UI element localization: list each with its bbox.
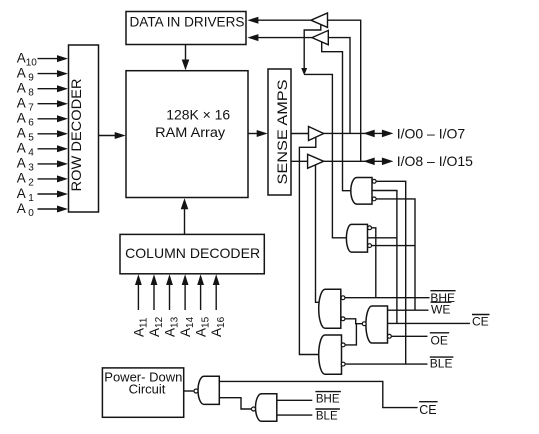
nand gate G2 (data-in enable high byte)	[346, 224, 367, 252]
nand gate G5 (read enable)	[366, 306, 388, 343]
wire G2 input3 to WE rail	[372, 245, 416, 247]
svg-text:ROW DECODER: ROW DECODER	[68, 79, 84, 192]
label SENSE AMPS	[274, 80, 290, 185]
wire COLUMN DECODER to RAM arrow	[184, 209, 186, 235]
wire T1 input from I/O8-15	[328, 20, 361, 161]
address input A10	[17, 50, 38, 68]
address input A14	[178, 316, 196, 337]
buffer T4 (I/O8-15 output)	[308, 154, 324, 168]
label BHE right	[430, 291, 455, 305]
svg-text:DATA IN DRIVERS: DATA IN DRIVERS	[130, 14, 245, 30]
svg-text:SENSE AMPS: SENSE AMPS	[274, 80, 290, 185]
and gate B (power-down byte)	[256, 394, 277, 422]
label I/O0 - I/O7	[397, 125, 466, 141]
wire A10	[38, 58, 60, 60]
wire Power-Down Circuit to gate A	[184, 390, 194, 392]
box COLUMN DECODER	[120, 234, 264, 273]
box ROW DECODER	[69, 45, 99, 212]
wire A3	[38, 163, 60, 165]
wire WE rail	[388, 309, 429, 311]
address input A9	[17, 65, 35, 83]
address input A12	[147, 316, 165, 337]
address input A0	[17, 201, 35, 219]
wire gate B input1 to BHE bottom	[277, 399, 313, 401]
nand gate G3 (output enable high byte)	[319, 289, 341, 328]
wire A14 arrow into COLUMN DECODER	[184, 285, 186, 311]
label I/O8 - I/O15	[397, 153, 473, 169]
nand gate G1 (data-in enable low byte)	[351, 178, 372, 205]
label OE right	[431, 334, 448, 348]
box RAM Array	[126, 71, 248, 198]
wire G1 input2 to CE rail	[372, 191, 397, 324]
label DATA IN DRIVERS	[130, 14, 245, 30]
label BLE right	[430, 357, 453, 371]
address input A7	[17, 96, 35, 114]
address input A4	[17, 141, 35, 159]
box DATA IN DRIVERS	[126, 12, 246, 45]
address input A2	[17, 171, 35, 189]
wire G3 input2 from G5 output	[345, 319, 362, 324]
address input A6	[17, 111, 35, 129]
wire T1 output arrow into DATA IN DRIVERS	[258, 19, 311, 21]
box SENSE AMPS	[268, 69, 291, 195]
wire A8	[38, 88, 60, 90]
wire A12 arrow into COLUMN DECODER	[153, 285, 155, 311]
wire A4	[38, 148, 60, 150]
svg-text:CE: CE	[472, 314, 489, 328]
nand gate G4 (output enable low byte)	[319, 335, 342, 374]
box Power-Down Circuit	[102, 368, 183, 417]
label 128K x 16 RAM Array	[155, 107, 230, 140]
wire A2	[38, 178, 60, 180]
wire BHE rail	[345, 297, 430, 299]
address input A3	[17, 156, 35, 174]
address input A13	[163, 316, 181, 337]
wire A16 arrow into COLUMN DECODER	[215, 285, 217, 311]
address input A11	[131, 317, 149, 337]
label ROW DECODER	[68, 79, 84, 192]
wire gate B input2 to BLE bottom	[277, 414, 313, 416]
label BLE bottom	[316, 411, 338, 423]
wire A9	[38, 73, 60, 75]
wire NAND G2 output to T1 enable	[304, 74, 347, 237]
buffer T1 (data-in upper)	[311, 13, 328, 27]
svg-text:COLUMN DECODER: COLUMN DECODER	[125, 245, 260, 261]
wire T2 input from I/O0-7	[328, 38, 350, 134]
wire T1 enable	[304, 25, 321, 70]
and gate A (power-down)	[198, 376, 219, 404]
wire G2 input1 to BHE rail	[372, 228, 376, 298]
wire T2 output arrow into DATA IN DRIVERS	[258, 37, 312, 39]
buffer T2 (data-in lower)	[312, 30, 328, 44]
address input A1	[17, 186, 35, 204]
wire A7	[38, 103, 60, 105]
label BHE bottom	[316, 393, 340, 405]
wire gate A input2 from gate B output	[219, 398, 251, 409]
wire I/O8-15 bus with bidirectional arrows	[324, 160, 383, 162]
wire T2 enable from NAND G1 output	[322, 42, 352, 191]
wire SENSE AMPS to T4	[291, 160, 308, 162]
wire G1 input3 to WE rail	[376, 199, 415, 310]
wire A15 arrow into COLUMN DECODER	[200, 285, 202, 311]
wire RAM to SENSE AMPS arrow	[248, 133, 258, 135]
address input A8	[17, 81, 35, 99]
svg-text:I/O0 – I/O7: I/O0 – I/O7	[397, 125, 466, 141]
svg-text:128K × 16: 128K × 16	[166, 107, 230, 123]
label COLUMN DECODER	[125, 245, 260, 261]
svg-text:BHE: BHE	[316, 393, 340, 405]
buffer T3 (I/O0-7 output)	[309, 127, 324, 141]
svg-text:I/O8 – I/O15: I/O8 – I/O15	[397, 153, 473, 169]
wire BLE rail	[345, 363, 427, 365]
label WE right	[431, 303, 450, 317]
svg-text:BLE: BLE	[316, 411, 338, 423]
svg-text:OE: OE	[431, 334, 448, 348]
address input A16	[209, 316, 227, 337]
svg-text:RAM Array: RAM Array	[155, 124, 225, 140]
label Power-Down Circuit	[104, 370, 182, 397]
wire CE rail	[388, 322, 471, 324]
wire A5	[38, 133, 60, 135]
wire SENSE AMPS to T3	[291, 133, 309, 135]
wire G4 input1 from G5 output	[345, 324, 356, 345]
label CE right	[472, 314, 489, 328]
wire I/O0-7 bus with bidirectional arrows	[324, 132, 383, 134]
wire A6	[38, 118, 60, 120]
wire ROW DECODER to RAM arrow	[99, 135, 116, 137]
wire T3 enable from NAND G4 output	[299, 137, 319, 355]
wire A13 arrow into COLUMN DECODER	[169, 285, 171, 311]
address input A15	[194, 316, 212, 337]
wire gate A input1 to CE bottom	[219, 381, 417, 407]
wire A1	[38, 193, 60, 195]
svg-text:WE: WE	[431, 303, 450, 317]
label CE bottom	[419, 403, 436, 417]
wire A0	[38, 208, 60, 210]
svg-text:Circuit: Circuit	[129, 382, 166, 397]
wire A11 arrow into COLUMN DECODER	[137, 285, 139, 311]
wire G1 input1 to BLE rail	[376, 181, 406, 364]
svg-text:CE: CE	[419, 403, 436, 417]
wire DATA IN DRIVERS to RAM arrow	[185, 45, 187, 61]
wire OE rail	[391, 335, 427, 337]
wire G2 input2 to CE rail	[368, 237, 397, 239]
svg-text:BLE: BLE	[430, 357, 453, 371]
address input A5	[17, 126, 35, 144]
wire T4 enable from NAND G3 output	[316, 165, 320, 302]
